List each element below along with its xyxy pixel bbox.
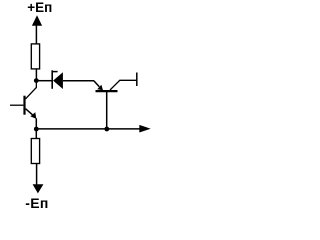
transistor VT2 emitter lead	[94, 81, 100, 87]
output wire	[36, 128, 140, 130]
wire R1 to node A	[35, 69, 37, 81]
zener VD1 cathode hook	[52, 71, 57, 73]
node A junction dot	[34, 78, 39, 83]
terminal bar (next stage connection)	[136, 73, 138, 87]
transistor VT1 collector lead	[26, 81, 37, 99]
node B2 junction dot	[104, 127, 109, 132]
transistor VT1 base bar	[23, 96, 25, 115]
zener diode VD1 anode triangle	[53, 72, 63, 89]
node B1 junction dot	[34, 127, 39, 132]
zener diode VD1 cathode bar	[51, 70, 53, 89]
transistor VT1 emitter vertical to node B1	[35, 118, 37, 129]
transistor VT2 collector lead	[110, 80, 136, 90]
wire zener to VT2 emitter	[63, 80, 94, 82]
power terminal arrow down (-Ep)	[33, 184, 44, 193]
svg-text:+Еп: +Еп	[27, 0, 52, 15]
wire node B1 to R2	[35, 129, 37, 139]
transistor VT1 base lead (input)	[10, 104, 23, 106]
power terminal arrow up (+Ep)	[32, 15, 42, 26]
transistor VT1 emitter arrowhead (NPN, points away)	[30, 112, 36, 119]
transistor VT2 base bar	[96, 90, 118, 92]
svg-text:-Еп: -Еп	[25, 195, 49, 211]
wire R2 to negative supply arrow	[36, 164, 38, 186]
output arrowhead	[139, 125, 150, 133]
resistor R2	[31, 139, 39, 164]
wire top supply to R1	[35, 25, 37, 44]
resistor R1	[31, 44, 39, 69]
transistor VT2 emitter arrowhead (PNP, points to base bar)	[97, 85, 103, 91]
transistor VT1 emitter lead	[26, 109, 33, 115]
wire node A to zener	[36, 80, 52, 82]
transistor VT2 base lead down	[106, 92, 108, 130]
